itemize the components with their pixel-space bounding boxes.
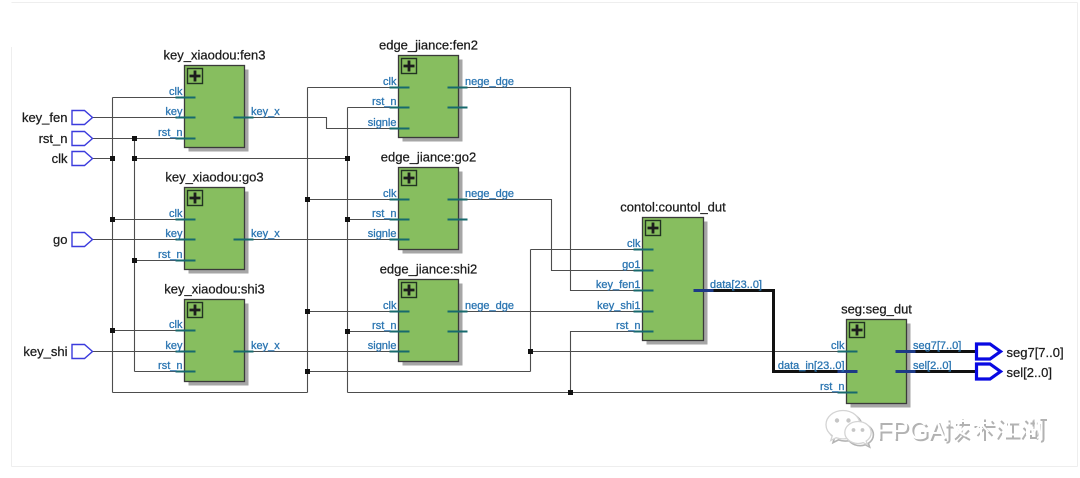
junction dots <box>110 136 573 395</box>
junction rst trunk2 / shi2.rst_n <box>345 329 350 334</box>
port nege_dge of edge_jiance:shi2 <box>448 311 468 313</box>
svg-text:key: key <box>165 340 183 352</box>
wire clk pin to trunkA <box>93 158 113 160</box>
watermark glyph 湖 <box>1019 416 1048 442</box>
svg-text:rst_n: rst_n <box>616 320 640 332</box>
watermark glyph 江 <box>994 417 1021 440</box>
svg-text:rst_n: rst_n <box>372 96 396 108</box>
port seg7[7..0] of seg:seg_dut <box>896 350 916 353</box>
block key_xiaodou:shi3 <box>158 282 280 386</box>
wire rst to shi3.rst_n <box>135 371 187 373</box>
bus data[23..0] countol to seg.data_in <box>703 291 847 372</box>
svg-text:contol:countol_dut: contol:countol_dut <box>620 200 726 215</box>
port clk of key_xiaodou:fen3 <box>176 97 196 99</box>
svg-text:rst_n: rst_n <box>39 131 68 146</box>
watermark text FPGA <box>876 417 947 447</box>
wire rst riser to countol.rst_n <box>571 332 644 393</box>
port data[23..0] of contol:countol_dut <box>694 289 714 292</box>
block contol:countol_dut <box>596 200 762 345</box>
svg-text:signle: signle <box>368 340 397 352</box>
port clk of key_xiaodou:shi3 <box>176 330 196 332</box>
svg-text:clk: clk <box>383 300 397 312</box>
svg-text:key_xiaodou:go3: key_xiaodou:go3 <box>165 170 263 185</box>
svg-text:clk: clk <box>52 151 68 166</box>
junction clk trunkA / clk pin <box>110 156 115 161</box>
wire fen2.nege_dge to countol.key_fen1 <box>459 88 644 291</box>
watermark glyph 术 <box>971 416 996 442</box>
svg-text:clk: clk <box>383 188 397 200</box>
port rst_n of key_xiaodou:shi3 <box>176 371 196 373</box>
svg-text:clk: clk <box>627 238 641 250</box>
svg-text:seg:seg_dut: seg:seg_dut <box>841 302 912 317</box>
svg-text:nege_dge: nege_dge <box>465 188 514 200</box>
svg-text:clk: clk <box>169 86 183 98</box>
junction clk riser / seg.clk rail <box>528 349 533 354</box>
port clk of edge_jiance:go2 <box>390 199 410 201</box>
wire rst branch rail <box>135 158 348 160</box>
port key of key_xiaodou:shi3 <box>176 351 196 353</box>
svg-text:clk: clk <box>169 208 183 220</box>
port rst_n of key_xiaodou:fen3 <box>176 138 196 140</box>
wire clk to shi2.clk <box>308 311 401 313</box>
wire rst bottom rail to seg <box>348 392 848 394</box>
wire go3.key_x to go2.signle <box>244 239 400 241</box>
svg-text:rst_n: rst_n <box>372 320 396 332</box>
wire rst to shi2.rst_n <box>348 331 401 333</box>
svg-text:rst_n: rst_n <box>372 208 396 220</box>
junction rst trunk2 / go2.rst_n <box>345 217 350 222</box>
svg-text:key_fen: key_fen <box>22 110 68 125</box>
svg-text:clk: clk <box>169 319 183 331</box>
svg-text:rst_n: rst_n <box>820 381 844 393</box>
svg-text:rst_n: rst_n <box>158 127 182 139</box>
wire shi3.key_x to shi2.signle <box>244 351 400 353</box>
svg-text:key_x: key_x <box>251 228 280 240</box>
svg-text:go1: go1 <box>622 259 640 271</box>
wire clk to fen3.clk <box>113 97 187 99</box>
wire rst to go3.rst_n <box>135 260 187 262</box>
svg-text:rst_n: rst_n <box>158 360 182 372</box>
svg-text:data_in[23..0]: data_in[23..0] <box>778 360 845 372</box>
port key_fen1 of contol:countol_dut <box>634 290 654 292</box>
port unconnected stub of edge_jiance:fen2 <box>448 107 468 109</box>
wire key_fen pin to fen3.key <box>93 117 186 119</box>
port clk of edge_jiance:shi2 <box>390 311 410 313</box>
svg-text:seg7[7..0]: seg7[7..0] <box>1007 345 1064 360</box>
junction clk trunk2 / go2.clk <box>305 197 310 202</box>
wire clk to go3.clk <box>113 219 187 221</box>
block key_xiaodou:go3 <box>158 170 280 274</box>
svg-text:key_fen1: key_fen1 <box>596 279 641 291</box>
port rst_n of key_xiaodou:go3 <box>176 260 196 262</box>
svg-text:key_x: key_x <box>251 106 280 118</box>
port signle of edge_jiance:go2 <box>390 239 410 241</box>
wire clk branch right <box>308 371 531 373</box>
junction clk trunk2 / clk branch <box>305 369 310 374</box>
bus seg7 to output pin <box>905 350 977 353</box>
port key_x of key_xiaodou:go3 <box>234 239 254 241</box>
port nege_dge of edge_jiance:go2 <box>448 199 468 201</box>
block edge_jiance:shi2 <box>368 262 514 366</box>
wire shi2.nege_dge to countol.key_shi1 <box>459 311 644 313</box>
svg-text:seg7[7..0]: seg7[7..0] <box>913 340 961 352</box>
junction rst trunkB / rst rail <box>132 156 137 161</box>
svg-text:key_xiaodou:shi3: key_xiaodou:shi3 <box>164 282 264 297</box>
wire clk riser to countol <box>530 250 532 372</box>
port signle of edge_jiance:fen2 <box>390 128 410 130</box>
junction rst trunk2 / rst rail <box>345 156 350 161</box>
input pin key_fen <box>72 111 93 125</box>
wire rst trunk2 vertical <box>347 108 349 393</box>
svg-text:nege_dge: nege_dge <box>465 76 514 88</box>
port signle of edge_jiance:shi2 <box>390 351 410 353</box>
wire clk to shi3.clk <box>113 330 187 332</box>
svg-text:rst_n: rst_n <box>158 249 182 261</box>
output pin sel <box>977 364 1001 379</box>
wire clk bottom rail <box>113 392 308 394</box>
svg-text:sel[2..0]: sel[2..0] <box>1007 365 1053 380</box>
port data_in[23..0] of seg:seg_dut <box>838 370 858 373</box>
port key_x of key_xiaodou:fen3 <box>234 117 254 119</box>
wire fen3.key_x to fen2.signle <box>244 118 400 129</box>
block key_xiaodou:fen3 <box>158 48 280 152</box>
junction clk trunk2 / shi2.clk <box>305 309 310 314</box>
block edge_jiance:go2 <box>368 150 514 254</box>
svg-text:key_xiaodou:fen3: key_xiaodou:fen3 <box>164 48 266 63</box>
port rst_n of seg:seg_dut <box>838 392 858 394</box>
wire rst trunkB vertical <box>134 139 136 372</box>
junction clk trunkA / go3.clk <box>110 217 115 222</box>
port rst_n of contol:countol_dut <box>634 331 654 333</box>
svg-text:go: go <box>53 232 67 247</box>
wire clk to fen2.clk <box>308 87 401 89</box>
svg-text:FPGA: FPGA <box>876 417 945 445</box>
input pin clk <box>72 152 93 166</box>
port key of key_xiaodou:fen3 <box>176 117 196 119</box>
port clk of seg:seg_dut <box>838 351 858 353</box>
wire clk trunkA vertical <box>112 98 114 393</box>
port clk of contol:countol_dut <box>634 249 654 251</box>
wire rst to fen2.rst_n <box>348 107 401 109</box>
watermark glyph 技 <box>941 416 970 443</box>
wire clk trunk2 vertical <box>307 88 309 393</box>
svg-text:key_shi1: key_shi1 <box>597 300 640 312</box>
block seg:seg_dut <box>778 302 962 408</box>
svg-text:key_x: key_x <box>251 340 280 352</box>
svg-text:signle: signle <box>368 117 397 129</box>
wire go pin to go3.key <box>93 239 186 241</box>
svg-text:data[23..0]: data[23..0] <box>710 279 762 291</box>
svg-text:clk: clk <box>383 76 397 88</box>
svg-text:edge_jiance:shi2: edge_jiance:shi2 <box>380 262 478 277</box>
port key_x of key_xiaodou:shi3 <box>234 351 254 353</box>
junction rst trunkB / go3.rst_n <box>132 258 137 263</box>
svg-text:clk: clk <box>831 340 845 352</box>
wire clk to countol.clk <box>531 249 644 251</box>
port clk of key_xiaodou:go3 <box>176 219 196 221</box>
svg-text:signle: signle <box>368 228 397 240</box>
wire rst_n pin to fen3.rst_n <box>93 138 186 140</box>
junction rst rail / countol rst riser <box>568 390 573 395</box>
junction rst trunkB / rst_n pin wire <box>132 136 137 141</box>
port unconnected stub of edge_jiance:shi2 <box>448 331 468 333</box>
port key of key_xiaodou:go3 <box>176 239 196 241</box>
port rst_n of edge_jiance:fen2 <box>390 107 410 109</box>
wire key_shi pin to shi3.key <box>93 351 186 353</box>
svg-text:key: key <box>165 106 183 118</box>
svg-text:key_shi: key_shi <box>23 344 67 359</box>
junction clk trunkA / shi3.clk <box>110 328 115 333</box>
wire go2.nege_dge to countol.go1 <box>459 200 644 271</box>
svg-text:edge_jiance:go2: edge_jiance:go2 <box>381 150 476 165</box>
wire clk to go2.clk <box>308 199 401 201</box>
block edge_jiance:fen2 <box>368 38 514 142</box>
port unconnected stub of edge_jiance:go2 <box>448 219 468 221</box>
input pin go <box>72 233 93 247</box>
watermark wechat icon <box>826 411 873 448</box>
port rst_n of edge_jiance:shi2 <box>390 331 410 333</box>
input pin key_shi <box>72 345 93 359</box>
port sel[2..0] of seg:seg_dut <box>896 370 916 373</box>
port clk of edge_jiance:fen2 <box>390 87 410 89</box>
port key_shi1 of contol:countol_dut <box>634 311 654 313</box>
svg-text:key: key <box>165 228 183 240</box>
svg-text:sel[2..0]: sel[2..0] <box>913 360 952 372</box>
output pin seg7 <box>977 344 1001 359</box>
bus sel to output pin <box>905 370 977 373</box>
input pin rst_n <box>72 132 93 146</box>
port nege_dge of edge_jiance:fen2 <box>448 87 468 89</box>
svg-text:nege_dge: nege_dge <box>465 300 514 312</box>
svg-text:edge_jiance:fen2: edge_jiance:fen2 <box>379 38 478 53</box>
wire clk to seg.clk <box>531 351 848 353</box>
wire rst to go2.rst_n <box>348 219 401 221</box>
port go1 of contol:countol_dut <box>634 270 654 272</box>
port rst_n of edge_jiance:go2 <box>390 219 410 221</box>
